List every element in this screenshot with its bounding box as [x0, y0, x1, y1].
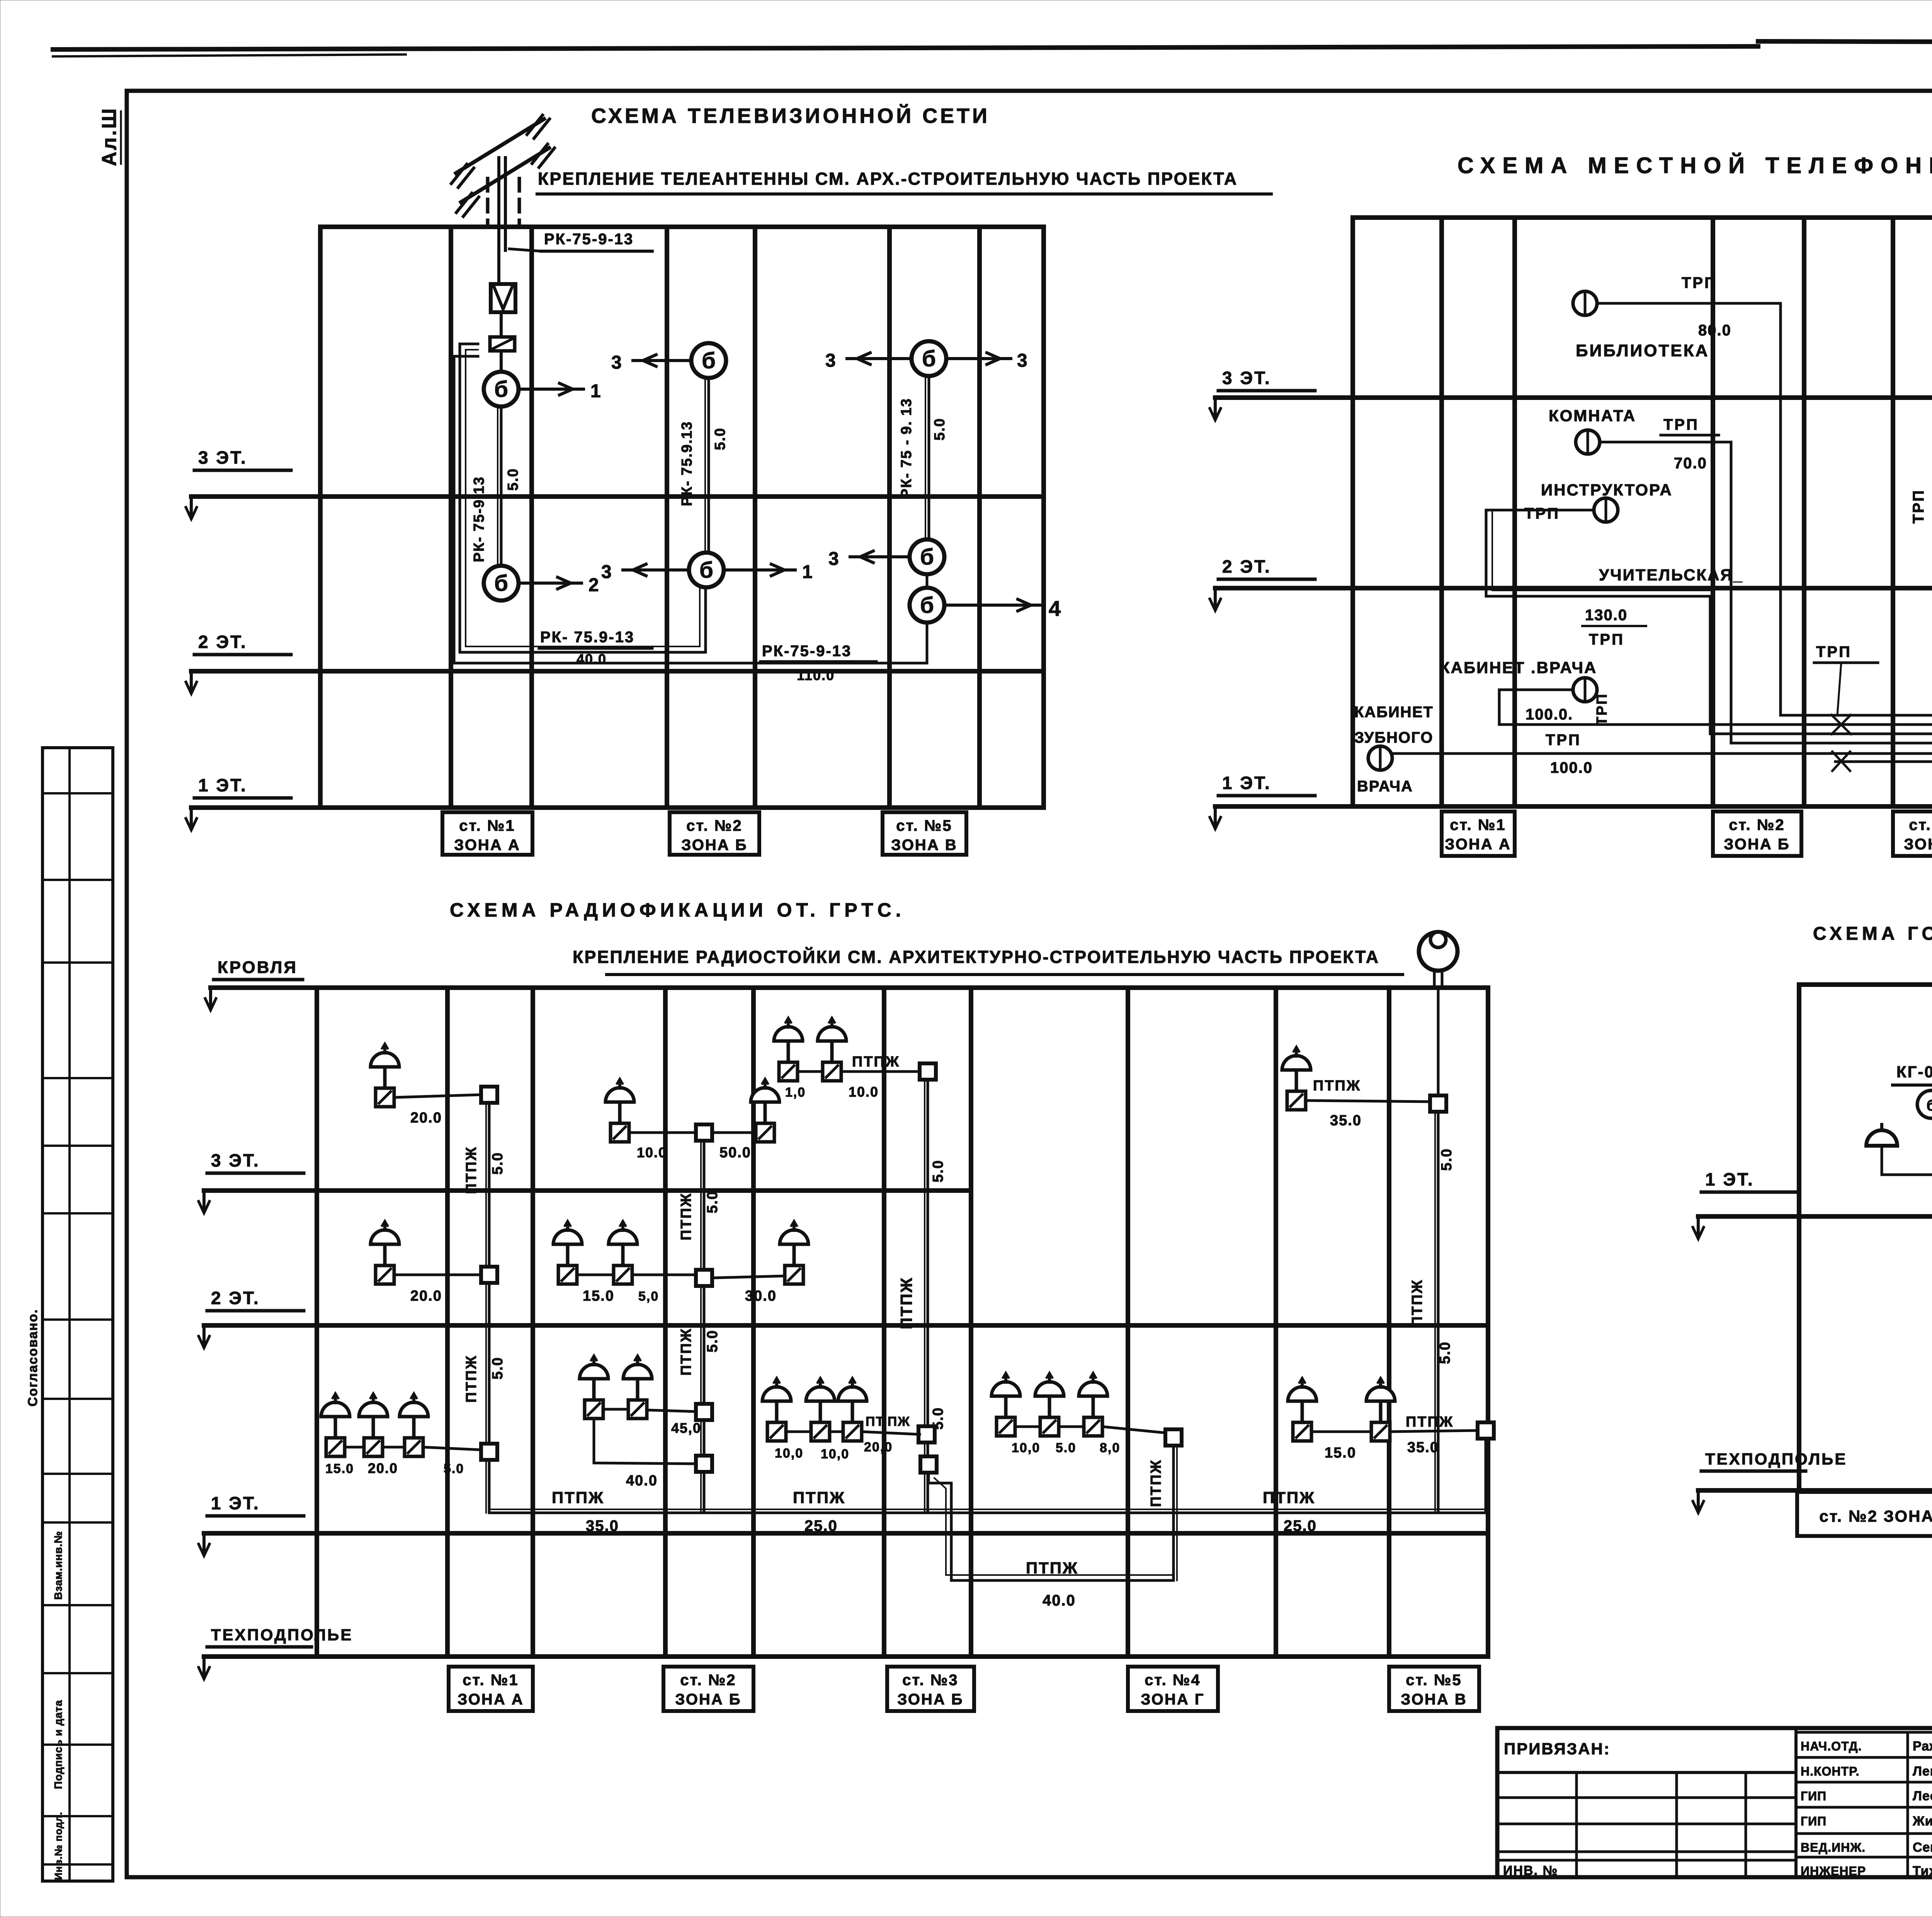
radio riser Г — [1172, 1446, 1175, 1580]
svg-text:б: б — [494, 571, 508, 596]
svg-text:10.0: 10.0 — [849, 1084, 879, 1100]
wire bundle line1 — [1781, 699, 1932, 715]
svg-text:Инв.№ подл.: Инв.№ подл. — [53, 1812, 64, 1880]
svg-text:8,0: 8,0 — [1100, 1441, 1120, 1455]
svg-text:СХЕМА ТЕЛЕВИЗИОННОЙ СЕТИ: СХЕМА ТЕЛЕВИЗИОННОЙ СЕТИ — [591, 104, 990, 128]
tap arrow Б1 out 3 — [633, 359, 691, 362]
svg-text:ТРП: ТРП — [1682, 274, 1717, 291]
TV building grid columns — [318, 227, 323, 808]
svg-text:ГИП: ГИП — [1801, 1789, 1827, 1803]
svg-text:1 ЭТ.: 1 ЭТ. — [1705, 1169, 1754, 1189]
svg-text:Леонтьев: Леонтьев — [1913, 1789, 1932, 1803]
svg-text:25.0: 25.0 — [1284, 1517, 1317, 1534]
radio floor label 1 ЭТ — [199, 1493, 304, 1556]
svg-text:КАБИНЕТ: КАБИНЕТ — [1354, 704, 1434, 721]
svg-text:б: б — [920, 544, 934, 570]
radio speaker+box A1a — [321, 1393, 350, 1456]
phone КАБИНЕТ ВРАЧА — [1573, 678, 1597, 702]
svg-text:10,0: 10,0 — [821, 1447, 849, 1461]
svg-text:1 ЭТ.: 1 ЭТ. — [198, 775, 247, 795]
svg-text:ПТПЖ: ПТПЖ — [1313, 1078, 1361, 1094]
sidebar column divider — [68, 748, 71, 1881]
svg-text:Ал.Ш: Ал.Ш — [98, 107, 121, 166]
svg-text:5.0: 5.0 — [1056, 1441, 1076, 1455]
wire Б3 speakers — [629, 1131, 696, 1134]
svg-text:50.0: 50.0 — [719, 1145, 751, 1161]
svg-text:110.0: 110.0 — [797, 667, 835, 683]
svg-text:5.0: 5.0 — [932, 418, 948, 441]
svg-text:РК- 75.9-13: РК- 75.9-13 — [540, 629, 634, 646]
tap arrow Б2 left 3 — [623, 568, 689, 572]
svg-text:ЗОНА Б: ЗОНА Б — [1724, 836, 1790, 853]
radio floor label 3 ЭТ — [199, 1150, 304, 1213]
svg-text:КРОВЛЯ: КРОВЛЯ — [218, 958, 298, 977]
svg-text:КРЕПЛЕНИЕ ТЕЛЕАНТЕННЫ СМ.: КРЕПЛЕНИЕ ТЕЛЕАНТЕННЫ СМ. АРХ.-СТРОИТЕЛЬ… — [538, 169, 1238, 189]
svg-text:5,0: 5,0 — [638, 1289, 659, 1304]
svg-text:2: 2 — [588, 575, 599, 595]
title block ИНВ № cell — [1497, 1859, 1796, 1862]
phone floor label 3 ЭТ — [1210, 368, 1315, 420]
svg-text:ТЕХПОДПОЛЬЕ: ТЕХПОДПОЛЬЕ — [1705, 1450, 1847, 1468]
wire Г1 speakers to junction — [1015, 1425, 1040, 1428]
svg-text:ст. №2: ст. №2 — [686, 817, 742, 834]
svg-text:ПРИВЯЗАН:: ПРИВЯЗАН: — [1504, 1740, 1611, 1758]
wire dome1 down and right — [1882, 1146, 1932, 1189]
sheet top border line — [53, 46, 1758, 49]
svg-text:СХЕМА РАДИОФИКАЦИИ ОТ. ГРТС.: СХЕМА РАДИОФИКАЦИИ ОТ. ГРТС. — [450, 899, 905, 921]
radio speaker+box A3 — [371, 1044, 399, 1107]
title block left grid — [1497, 1796, 1796, 1799]
svg-text:1: 1 — [590, 381, 601, 401]
radio speaker+box A1c — [400, 1393, 428, 1456]
wire Б2 speakers — [577, 1274, 614, 1276]
phone station box ст.N3 зона Б — [1893, 811, 1932, 856]
radio 1 эт run — [489, 1512, 1486, 1514]
tap arrow В3 out 4 — [944, 604, 1042, 607]
tap arrow В1 left 3 — [847, 357, 912, 360]
radio junction box 9 — [918, 1426, 935, 1442]
sidebar table outer — [43, 748, 113, 1881]
radio speaker+box Б3a — [605, 1079, 634, 1142]
svg-text:ЗОНА А: ЗОНА А — [457, 1691, 524, 1708]
radio station box ст.N5 зона В — [1389, 1667, 1479, 1711]
city floor label 1 ЭТ — [1693, 1169, 1798, 1239]
radio speaker+box Г1c — [1079, 1373, 1107, 1436]
wire A3 to riser — [394, 1095, 481, 1097]
svg-text:УЧИТЕЛЬСКАЯ_: УЧИТЕЛЬСКАЯ_ — [1599, 566, 1743, 584]
svg-text:3: 3 — [825, 350, 836, 371]
radio floor label ТЕХПОДПОЛЬЕ — [199, 1626, 353, 1679]
svg-text:ПТПЖ: ПТПЖ — [1148, 1459, 1164, 1507]
svg-text:100.0: 100.0 — [1550, 759, 1593, 776]
radio speaker+box В1c — [838, 1378, 867, 1441]
svg-text:ст. №2: ст. №2 — [680, 1672, 736, 1689]
svg-text:5.0: 5.0 — [1437, 1341, 1453, 1364]
svg-text:РК-75-9-13: РК-75-9-13 — [762, 643, 852, 660]
radio grid top chord — [317, 985, 1488, 990]
svg-text:б: б — [1927, 1097, 1932, 1114]
svg-text:3 ЭТ.: 3 ЭТ. — [211, 1150, 260, 1170]
svg-text:ЗОНА Б: ЗОНА Б — [681, 837, 747, 854]
TV amplifier U1 — [491, 284, 515, 312]
phone grid columns — [1350, 218, 1355, 806]
radio roof line — [211, 985, 317, 990]
wire doctor to bundle — [1499, 690, 1932, 725]
svg-text:ПТПЖ: ПТПЖ — [793, 1488, 845, 1507]
svg-text:ст. №1: ст. №1 — [463, 1672, 519, 1689]
wire Б1 speakers — [603, 1408, 628, 1411]
svg-text:б: б — [702, 348, 716, 373]
svg-text:5.0: 5.0 — [704, 1191, 721, 1213]
svg-text:100.0.: 100.0. — [1526, 706, 1573, 723]
svg-text:Тихонова: Тихонова — [1913, 1864, 1932, 1878]
svg-text:10,0: 10,0 — [775, 1446, 803, 1461]
svg-text:б: б — [920, 593, 934, 618]
svg-text:130.0: 130.0 — [1585, 607, 1628, 624]
svg-text:5.0: 5.0 — [490, 1357, 506, 1379]
svg-text:3: 3 — [1017, 350, 1027, 371]
svg-text:ИНВ. №: ИНВ. № — [1503, 1863, 1558, 1878]
TV antenna dashed shaft box — [486, 179, 490, 224]
radio speaker+box A1b — [359, 1393, 388, 1456]
svg-text:ГИП: ГИП — [1801, 1814, 1827, 1828]
radio station box ст.N2 зона Б — [663, 1667, 753, 1711]
phone floor line 1 эт — [1215, 804, 1932, 809]
svg-text:ст. №2 ЗОНА Б: ст. №2 ЗОНА Б — [1819, 1507, 1932, 1525]
svg-text:ИНЖЕНЕР: ИНЖЕНЕР — [1801, 1864, 1866, 1878]
signature table grid — [1796, 1731, 1932, 1734]
phone grid top chord — [1353, 215, 1932, 220]
radio speaker+box Б2b — [609, 1221, 637, 1284]
svg-text:10,0: 10,0 — [1012, 1441, 1040, 1455]
svg-text:3: 3 — [611, 352, 622, 373]
svg-text:20,0: 20,0 — [864, 1440, 893, 1454]
radio bypass loop 40.0 — [929, 1473, 1173, 1580]
svg-text:5.0: 5.0 — [704, 1330, 721, 1352]
svg-text:ВРАЧА: ВРАЧА — [1357, 778, 1413, 795]
svg-text:5.0: 5.0 — [505, 468, 521, 491]
svg-text:КАБИНЕТ .ВРАЧА: КАБИНЕТ .ВРАЧА — [1440, 658, 1597, 677]
wire A1 speakers to riser — [345, 1446, 364, 1449]
svg-text:Левина: Левина — [1913, 1764, 1932, 1779]
tap arrow A2 out 2 — [519, 582, 582, 585]
svg-text:ПТПЖ: ПТПЖ — [1409, 1279, 1425, 1327]
svg-text:ст. №3: ст. №3 — [1909, 816, 1932, 833]
radio speaker+box Д3 — [1282, 1047, 1311, 1110]
svg-text:Ражинский: Ражинский — [1913, 1739, 1932, 1754]
svg-text:ЗОНА В: ЗОНА В — [891, 837, 957, 854]
wire A2 to riser — [394, 1274, 481, 1276]
svg-text:б: б — [922, 346, 936, 371]
radio station box ст.N1 зона А — [449, 1667, 533, 1711]
phone БИБЛИОТЕКА — [1573, 291, 1597, 315]
TV floor label 3 ЭТ — [186, 447, 291, 519]
TV outlet A1 — [484, 372, 519, 407]
phone floor label 1 ЭТ — [1210, 773, 1315, 829]
svg-text:ст. №1: ст. №1 — [1450, 816, 1506, 833]
city grid top chord — [1799, 982, 1932, 987]
svg-text:ПТПЖ: ПТПЖ — [552, 1488, 604, 1507]
wire Б1 loop 40.0 — [594, 1419, 696, 1464]
svg-text:20.0: 20.0 — [368, 1460, 398, 1476]
TV floor label 1 ЭТ — [186, 775, 291, 830]
city floor label ТЕХПОДПОЛЬЕ — [1693, 1450, 1847, 1513]
svg-text:РК- 75 - 9. 13: РК- 75 - 9. 13 — [898, 398, 915, 498]
city station box ст.N2 зона Б — [1797, 1492, 1932, 1536]
radio floor label КРОВЛЯ — [205, 958, 303, 1010]
radio speaker+box Б2a — [553, 1221, 582, 1284]
radio speaker+box A2 — [371, 1221, 399, 1284]
riser cable Б1-Б2 — [707, 378, 710, 553]
svg-text:15.0: 15.0 — [1325, 1445, 1356, 1461]
radio junction box 11 — [1165, 1429, 1182, 1446]
svg-text:ст. №3: ст. №3 — [902, 1672, 958, 1689]
phone УЧИТЕЛЬСКАЯ — [1594, 498, 1618, 522]
radio speaker+box Д1a — [1288, 1378, 1316, 1441]
TV building grid top chord — [320, 225, 1044, 229]
radio speaker+box В1b — [806, 1378, 835, 1441]
radio grid columns — [315, 988, 319, 1657]
svg-text:ПТПЖ: ПТПЖ — [1263, 1488, 1315, 1507]
radio junction box 5 — [696, 1270, 712, 1286]
svg-text:ст. №5: ст. №5 — [1406, 1672, 1462, 1689]
svg-text:5.0: 5.0 — [490, 1152, 506, 1175]
svg-text:5.0: 5.0 — [712, 427, 728, 450]
svg-text:ПТПЖ: ПТПЖ — [1406, 1414, 1454, 1430]
svg-text:Семенова: Семенова — [1913, 1840, 1932, 1855]
radio speaker+box Г1a — [992, 1373, 1020, 1436]
radio speaker+box В1a — [762, 1378, 791, 1441]
svg-text:РК- 75-9.13: РК- 75-9.13 — [471, 476, 487, 562]
tap arrow В1 right 3 — [946, 357, 1011, 360]
svg-text:ЗОНА Б: ЗОНА Б — [1904, 836, 1932, 853]
wire В2-В3 — [926, 574, 929, 588]
riser cable A1-A2 — [500, 407, 503, 566]
TV antenna mast — [497, 158, 500, 284]
radio floor line 1 эт — [204, 1531, 1488, 1536]
wire bundle line3 — [1710, 703, 1932, 734]
svg-text:ЗОНА В: ЗОНА В — [1401, 1691, 1467, 1708]
TV outlet В3 — [910, 588, 944, 623]
svg-text:4: 4 — [1049, 596, 1061, 621]
radio speaker+box В3a — [774, 1018, 803, 1081]
svg-text:ст. №5: ст. №5 — [896, 817, 952, 834]
svg-text:б: б — [699, 558, 713, 583]
svg-text:ЗУБНОГО: ЗУБНОГО — [1354, 729, 1433, 746]
TV antenna dipole lower — [461, 148, 549, 202]
radio speaker+box Б3b — [751, 1079, 779, 1142]
TV splitter — [490, 337, 515, 351]
radio speaker+box Г1b — [1035, 1373, 1064, 1436]
svg-text:ЗОНА Б: ЗОНА Б — [897, 1691, 963, 1708]
svg-text:2 ЭТ.: 2 ЭТ. — [198, 632, 247, 652]
radio floor line техподполье — [204, 1654, 1488, 1659]
radio speaker+box Д1b — [1366, 1378, 1395, 1441]
radio junction box 8 — [920, 1063, 936, 1080]
riser cable В1-В2 — [928, 376, 930, 539]
svg-text:1,0: 1,0 — [785, 1085, 806, 1100]
svg-text:3: 3 — [828, 549, 839, 569]
radio riser Д — [1437, 988, 1440, 1513]
wire Д1 speakers to junction — [1311, 1431, 1371, 1433]
radio junction box 13 — [1478, 1422, 1494, 1439]
radio station box ст.N3 зона Б — [887, 1667, 974, 1711]
svg-text:70.0: 70.0 — [1674, 455, 1707, 472]
svg-text:45,0: 45,0 — [671, 1420, 701, 1436]
loop cable to zone В — [454, 356, 927, 663]
phone floor line 2 эт — [1215, 586, 1932, 590]
svg-text:ст. №1: ст. №1 — [459, 817, 515, 834]
tap arrow A1 out 1 — [519, 388, 583, 391]
city grid columns — [1797, 985, 1801, 1490]
svg-text:5.0: 5.0 — [930, 1160, 946, 1182]
svg-text:10.0: 10.0 — [637, 1145, 667, 1160]
svg-text:КРЕПЛЕНИЕ РАДИОСТОЙКИ СМ. А: КРЕПЛЕНИЕ РАДИОСТОЙКИ СМ. АРХИТЕКТУРНО-С… — [573, 947, 1379, 967]
phone КАБИНЕТ ЗУБНОГО ВРАЧА — [1368, 746, 1392, 770]
wire amp to splitter — [500, 312, 503, 337]
svg-text:Согласовано.: Согласовано. — [26, 1309, 40, 1407]
svg-text:3 ЭТ.: 3 ЭТ. — [198, 447, 247, 468]
wire Д3 to riser — [1306, 1101, 1430, 1102]
svg-text:3 ЭТ.: 3 ЭТ. — [1222, 368, 1271, 388]
svg-text:ТРП: ТРП — [1524, 505, 1560, 522]
TV station box ст.N2 зона Б — [670, 812, 759, 855]
TV floor line 2 эт — [191, 669, 1044, 674]
svg-text:ИНСТРУКТОРА: ИНСТРУКТОРА — [1541, 481, 1673, 499]
radio junction box 12 — [1430, 1095, 1446, 1112]
tap arrow В2 left 3 — [850, 555, 910, 558]
svg-text:Жилова: Жилова — [1912, 1814, 1932, 1829]
svg-text:НАЧ.ОТД.: НАЧ.ОТД. — [1801, 1739, 1862, 1753]
svg-text:15.0: 15.0 — [325, 1461, 354, 1476]
radio riser Б — [703, 1133, 706, 1513]
radio junction box 3 — [481, 1444, 497, 1460]
svg-text:5.0: 5.0 — [444, 1461, 464, 1476]
TV station box ст.N1 зона А — [442, 812, 532, 855]
tap arrow Б2 out 1 — [724, 568, 795, 572]
svg-text:ТРП: ТРП — [1663, 416, 1699, 433]
svg-text:РК-75-9-13: РК-75-9-13 — [544, 231, 634, 248]
radio station box ст.N4 зона Г — [1128, 1667, 1218, 1711]
svg-text:Подпись и дата: Подпись и дата — [52, 1700, 64, 1789]
wire splitter to outlet A1 — [500, 351, 503, 372]
city floor line 1 эт — [1698, 1214, 1932, 1219]
svg-text:б: б — [494, 377, 508, 402]
city floor line техподполье — [1698, 1488, 1932, 1493]
phone КОМНАТА ИНСТРУКТОРА — [1576, 430, 1600, 454]
radio stand symbol — [1419, 932, 1458, 971]
phone floor label 2 ЭТ — [1210, 556, 1315, 611]
svg-text:20.0: 20.0 — [410, 1110, 442, 1126]
radio junction box 10 — [920, 1456, 937, 1473]
wire teachers room loop — [1486, 510, 1710, 734]
svg-text:20.0: 20.0 — [410, 1288, 442, 1304]
svg-text:35.0: 35.0 — [1330, 1112, 1362, 1129]
svg-text:ПТПЖ: ПТПЖ — [463, 1146, 480, 1194]
city taxophone dome 1 — [1866, 1124, 1897, 1146]
radio junction box 4 — [696, 1124, 712, 1141]
svg-text:ст. №4: ст. №4 — [1145, 1672, 1201, 1689]
sidebar row lines — [43, 792, 113, 794]
phone station box ст.N2 зона Б — [1713, 811, 1801, 856]
svg-text:30.0: 30.0 — [745, 1288, 777, 1304]
phone station box ст.N1 зона А — [1442, 811, 1515, 856]
svg-text:1: 1 — [802, 562, 813, 582]
svg-text:КГ-01: КГ-01 — [1896, 1063, 1932, 1081]
wire bundle line4 — [1731, 705, 1932, 743]
svg-text:40.0: 40.0 — [626, 1473, 658, 1489]
svg-text:РК- 75.9.13: РК- 75.9.13 — [679, 421, 695, 506]
svg-text:ТРП: ТРП — [1589, 631, 1624, 648]
svg-text:3: 3 — [601, 562, 612, 582]
svg-text:ПТПЖ: ПТПЖ — [678, 1328, 694, 1376]
radio junction box 2 — [481, 1267, 497, 1283]
radio floor label 2 ЭТ — [199, 1288, 304, 1348]
TV outlet Б1 — [691, 343, 726, 378]
svg-text:15.0: 15.0 — [583, 1288, 614, 1304]
wire В3 speakers to riser — [798, 1070, 823, 1073]
TV floor line 1 эт — [191, 805, 1044, 810]
svg-text:Н.КОНТР.: Н.КОНТР. — [1801, 1764, 1860, 1778]
svg-text:35.0: 35.0 — [1407, 1439, 1439, 1456]
radio riser В — [927, 1072, 929, 1513]
title block left outer — [1497, 1728, 1932, 1877]
svg-text:2 ЭТ.: 2 ЭТ. — [211, 1288, 260, 1308]
radio speaker+box Б1a — [580, 1356, 608, 1419]
wire В1 speakers to riser — [786, 1431, 811, 1433]
svg-text:ТРП: ТРП — [1594, 693, 1610, 726]
svg-text:ПТПЖ: ПТПЖ — [897, 1277, 915, 1329]
svg-text:ст. №2: ст. №2 — [1729, 816, 1785, 833]
svg-text:40.0: 40.0 — [1043, 1592, 1076, 1609]
svg-text:35.0: 35.0 — [586, 1517, 619, 1534]
svg-text:ЗОНА А: ЗОНА А — [454, 837, 520, 854]
radio junction box 7 — [696, 1456, 712, 1472]
bundle cross mark 2 — [1832, 752, 1850, 771]
TV outlet В2 — [910, 539, 944, 574]
TV outlet Б2 — [689, 553, 724, 587]
wire library to riser — [1597, 303, 1781, 715]
svg-text:80.0: 80.0 — [1698, 322, 1731, 339]
svg-text:25.0: 25.0 — [804, 1517, 838, 1534]
radio riser A — [488, 1095, 491, 1513]
svg-text:ТЕХПОДПОЛЬЕ: ТЕХПОДПОЛЬЕ — [211, 1626, 353, 1644]
svg-text:БИБЛИОТЕКА: БИБЛИОТЕКА — [1576, 341, 1709, 360]
radio junction box 6 — [696, 1404, 712, 1420]
TV antenna dipole upper — [456, 119, 544, 173]
bundle cross mark 1 — [1832, 715, 1851, 734]
svg-text:ПТПЖ: ПТПЖ — [1026, 1559, 1078, 1577]
TV outlet В1 — [912, 341, 946, 376]
wire bundle line6 — [1835, 709, 1932, 762]
svg-text:5.0: 5.0 — [1439, 1148, 1455, 1171]
wire dental to РТК — [1392, 752, 1932, 755]
radio speaker+box В3b — [818, 1018, 846, 1081]
svg-text:СХЕМА МЕСТНОЙ ТЕЛЕФОННОЙ СВ: СХЕМА МЕСТНОЙ ТЕЛЕФОННОЙ СВЯЗИ. — [1458, 153, 1932, 178]
phone floor line 3 эт — [1215, 395, 1932, 400]
radio floor line 2 эт — [204, 1323, 1488, 1328]
svg-text:1 ЭТ.: 1 ЭТ. — [1222, 773, 1271, 793]
radio floor line 3 эт — [204, 1188, 971, 1193]
svg-text:ТРП: ТРП — [1910, 489, 1927, 524]
svg-text:Взам.инв.№: Взам.инв.№ — [52, 1531, 64, 1600]
radio speaker+box Б1b — [623, 1356, 652, 1419]
svg-text:1 ЭТ.: 1 ЭТ. — [211, 1493, 260, 1513]
svg-text:2 ЭТ.: 2 ЭТ. — [1222, 556, 1271, 577]
svg-text:ПТ.ПЖ: ПТ.ПЖ — [866, 1414, 910, 1429]
TV floor label 2 ЭТ — [186, 632, 291, 694]
svg-text:ЗОНА Б: ЗОНА Б — [675, 1691, 741, 1708]
